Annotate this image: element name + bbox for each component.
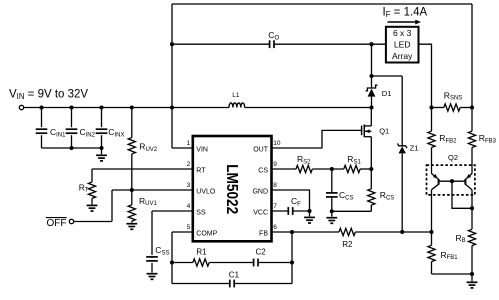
svg-text:2: 2 — [187, 161, 191, 168]
svg-text:OFF: OFF — [47, 218, 67, 229]
wire OUT to gate — [272, 130, 362, 148]
wire UVLO — [112, 189, 193, 191]
node bottom ground — [470, 272, 474, 276]
svg-text:C2: C2 — [256, 247, 267, 256]
svg-text:LM5022: LM5022 — [223, 164, 240, 214]
node FB-R_FB1 — [429, 230, 433, 234]
ground C_CS — [331, 211, 333, 216]
wire CS — [272, 168, 297, 170]
wire C_O rail right — [274, 43, 386, 45]
node COMP branch — [170, 260, 174, 264]
capacitor C_F — [287, 207, 289, 215]
wire OFF vertical — [111, 190, 113, 222]
diode D1 — [371, 76, 373, 88]
zener Z1 — [401, 76, 403, 146]
wire output node vertical — [371, 44, 373, 76]
ground R_UV1 — [126, 223, 137, 225]
wire GND pin — [272, 190, 310, 211]
resistor R_S1 — [344, 165, 360, 172]
wire FB right — [355, 231, 431, 233]
node CS-R_CS — [369, 167, 373, 171]
svg-text:C1: C1 — [229, 270, 240, 279]
node VIN-C_IN2 — [69, 105, 73, 109]
node output-Z1 — [369, 74, 373, 78]
wire right rail — [471, 4, 473, 108]
ground C_F — [309, 211, 311, 216]
svg-text:OUT: OUT — [253, 146, 269, 153]
wire R_CS return — [332, 210, 372, 212]
transistor Q2 left BJT — [438, 179, 440, 185]
wire SS — [152, 210, 193, 212]
wire top rail — [172, 3, 472, 5]
node VIN-C_INX — [99, 105, 103, 109]
wire comp to FB — [291, 232, 293, 284]
ground R_T — [87, 204, 98, 206]
arrow IF — [388, 21, 416, 23]
op-amp U1 LM5022 IC body — [193, 136, 272, 241]
node VIN-left-vertical — [170, 105, 174, 109]
terminal OFF — [69, 219, 73, 223]
ground input caps — [101, 148, 103, 154]
svg-text:COMP: COMP — [196, 230, 217, 237]
resistor R_SNS — [444, 104, 460, 111]
wire Q2 base tie — [439, 180, 466, 182]
svg-text:CS: CS — [258, 167, 268, 174]
svg-text:Q1: Q1 — [379, 127, 389, 136]
svg-text:RT: RT — [196, 167, 206, 174]
node R_SNS left — [429, 105, 433, 109]
wire output to Z1 — [372, 75, 403, 77]
node VIN-C_IN1 — [39, 105, 43, 109]
resistor R_UV2 — [131, 108, 133, 138]
capacitor C_O — [269, 40, 271, 48]
wire COMP — [172, 231, 193, 233]
transistor Q2 dashed box — [427, 165, 475, 195]
capacitor C_SS — [146, 256, 158, 258]
resistor R2 — [339, 228, 355, 235]
capacitor C2 — [253, 259, 255, 267]
svg-text:9: 9 — [273, 161, 277, 168]
capacitor C_INX — [101, 108, 103, 128]
transistor Q2 right BJT — [464, 179, 466, 185]
svg-text:3: 3 — [187, 182, 191, 189]
svg-text:4: 4 — [187, 203, 191, 210]
resistor R_UV1 — [131, 190, 133, 205]
node C_IN2 return — [69, 146, 73, 150]
node FB-Z1 — [400, 230, 404, 234]
wire bottom return — [432, 273, 473, 275]
inductor L1 — [229, 103, 245, 108]
resistor R_FB1 — [431, 232, 433, 245]
wire LED right — [419, 44, 432, 107]
ground C_SS — [147, 273, 158, 275]
wire C_O rail left — [172, 43, 270, 45]
resistor R_B — [471, 208, 473, 229]
wire C1 branch — [172, 283, 230, 285]
svg-text:Q2: Q2 — [448, 153, 458, 162]
resistor R_FB2 — [431, 108, 433, 132]
svg-text:R2: R2 — [342, 240, 353, 249]
svg-text:1: 1 — [187, 140, 191, 147]
wire R_SNS right — [460, 107, 472, 109]
resistor R1 — [172, 262, 193, 264]
node C_INX return — [99, 146, 103, 150]
resistor R_CS — [370, 169, 372, 189]
wire Q2 right collector — [471, 190, 473, 209]
wire VIN rail — [24, 107, 229, 109]
svg-text:VIN: VIN — [196, 146, 208, 153]
input terminal VIN — [19, 105, 23, 109]
node Q2 bases — [450, 179, 454, 183]
svg-text:5: 5 — [187, 224, 191, 231]
svg-text:UVLO: UVLO — [196, 188, 216, 195]
node C_CS return — [330, 209, 334, 213]
wire VIN rail right of L1 — [245, 107, 372, 109]
capacitor C_IN2 — [71, 108, 73, 128]
svg-text:D1: D1 — [382, 89, 392, 98]
wire FB — [272, 231, 340, 233]
node CS-C_CS — [330, 167, 334, 171]
svg-text:8: 8 — [273, 182, 277, 189]
resistor R_FB3 — [471, 108, 473, 132]
wire pin1 VIN — [172, 147, 193, 149]
ground output — [471, 274, 473, 281]
node output top — [369, 42, 373, 46]
capacitor C_CS — [331, 169, 333, 193]
svg-text:LED: LED — [394, 39, 411, 49]
svg-text:6 x 3: 6 x 3 — [393, 28, 412, 38]
wire R_SNS left — [432, 107, 444, 109]
node VCC ground — [307, 209, 311, 213]
wire input cap return — [42, 147, 102, 149]
node C_O left — [170, 42, 174, 46]
wire Q2 left collector — [431, 190, 433, 232]
resistor R_S2 — [296, 165, 312, 172]
svg-text:7: 7 — [273, 203, 277, 210]
wire R_S1 to source — [360, 168, 371, 170]
node right collector tie — [470, 206, 474, 210]
svg-text:VCC: VCC — [253, 209, 268, 216]
svg-text:6: 6 — [273, 224, 277, 231]
capacitor C1 — [229, 280, 231, 288]
wire C_F to ground node — [293, 210, 310, 212]
transistor Q1 — [361, 126, 363, 136]
svg-text:L1: L1 — [232, 92, 240, 99]
svg-text:R1: R1 — [196, 247, 207, 256]
LED array box — [386, 27, 419, 63]
node switch-drain junction — [369, 105, 373, 109]
capacitor C_IN1 — [41, 108, 43, 128]
node UVLO divider — [130, 188, 134, 192]
resistor R_T — [91, 169, 93, 182]
svg-text:GND: GND — [252, 188, 268, 195]
node C2-FB — [290, 260, 294, 264]
wire base to right collector — [452, 181, 472, 208]
node FB junction — [290, 230, 294, 234]
wire RT — [92, 168, 193, 170]
wire VCC pin — [272, 210, 289, 212]
wire CS mid — [312, 168, 344, 170]
svg-text:Z1: Z1 — [410, 144, 419, 153]
svg-text:FB: FB — [259, 230, 268, 237]
svg-text:Array: Array — [392, 51, 413, 61]
svg-text:SS: SS — [196, 209, 206, 216]
wire OFF — [74, 221, 112, 223]
svg-text:10: 10 — [273, 140, 281, 147]
node R_SNS right — [470, 105, 474, 109]
wire left vertical — [171, 4, 173, 148]
node VIN-R_UV2 — [130, 105, 134, 109]
